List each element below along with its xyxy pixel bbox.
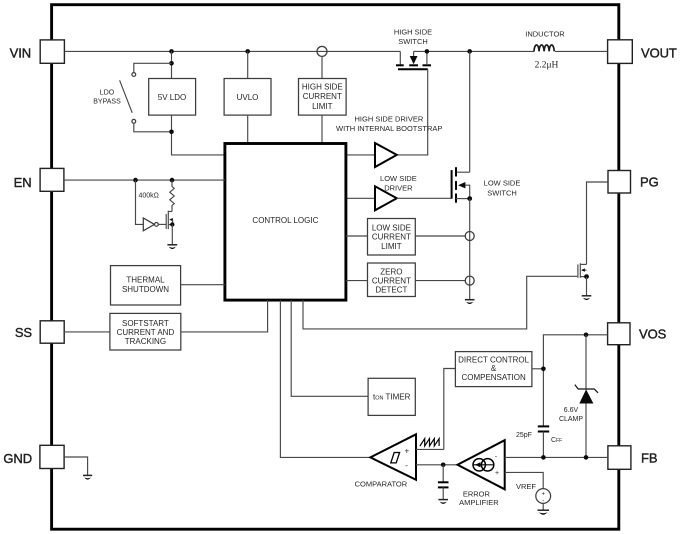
- wire tON timer riser: [291, 300, 368, 396]
- node VIN sense circle: [317, 46, 327, 78]
- svg-text:VOUT: VOUT: [641, 45, 677, 60]
- wire PG gate net: [303, 276, 577, 329]
- svg-text:CURRENT: CURRENT: [372, 276, 411, 285]
- svg-text:CONTROL LOGIC: CONTROL LOGIC: [252, 216, 318, 225]
- ramp symbol: [420, 439, 439, 446]
- capacitor Cff 25pF: [516, 426, 562, 457]
- svg-text:LOW SIDE: LOW SIDE: [380, 174, 417, 183]
- node VIN-LDO junction: [169, 49, 174, 78]
- transistor low side switch: [452, 167, 521, 203]
- block SOFTSTART: [110, 313, 181, 350]
- svg-text:6.6V: 6.6V: [564, 407, 579, 414]
- svg-text:FB: FB: [641, 451, 657, 466]
- svg-text:SWITCH: SWITCH: [398, 37, 428, 46]
- pin FB: [608, 446, 658, 470]
- block 5V LDO: [149, 79, 196, 116]
- inductor L1: [525, 29, 607, 70]
- svg-text:BYPASS: BYPASS: [93, 98, 121, 105]
- wire UVLO to control logic: [247, 115, 249, 143]
- transistor high side switch: [394, 27, 432, 69]
- wire HSCL to control logic: [321, 115, 323, 143]
- svg-text:PG: PG: [640, 175, 659, 190]
- wire EN rail: [64, 178, 225, 183]
- pin VIN: [10, 40, 65, 63]
- pin EN: [14, 168, 64, 191]
- pin GND: [3, 445, 64, 468]
- transistor EN pulldown Q1: [166, 211, 174, 245]
- svg-text:SHUTDOWN: SHUTDOWN: [122, 285, 169, 294]
- inverter U2: [143, 218, 166, 231]
- pin PG: [608, 171, 659, 194]
- wire comparator plus input: [416, 448, 444, 450]
- wire LSCL sense: [415, 232, 474, 241]
- source VREF: [516, 482, 551, 510]
- ground low side source: [465, 300, 475, 304]
- svg-text:LDO: LDO: [100, 90, 115, 97]
- svg-text:CLAMP: CLAMP: [559, 416, 583, 423]
- svg-text:VOS: VOS: [639, 327, 667, 342]
- op-amp high side driver: [336, 115, 442, 168]
- wire high side gate: [397, 69, 428, 155]
- wire FB rail: [505, 455, 608, 460]
- svg-text:INDUCTOR: INDUCTOR: [525, 29, 565, 38]
- svg-text:LIMIT: LIMIT: [381, 242, 402, 251]
- pin VOUT: [608, 40, 677, 64]
- resistor 400k: [139, 180, 175, 211]
- svg-text:CFF: CFF: [551, 437, 562, 444]
- svg-text:VIN: VIN: [10, 45, 31, 60]
- node VIN-UVLO junction: [245, 49, 250, 78]
- svg-text:CURRENT AND: CURRENT AND: [117, 328, 175, 337]
- svg-text:CURRENT: CURRENT: [372, 233, 411, 242]
- svg-text:THERMAL: THERMAL: [126, 276, 165, 285]
- capacitor comparator filter: [438, 465, 449, 500]
- wire error amp plus input: [505, 472, 544, 488]
- svg-text:EN: EN: [14, 175, 32, 190]
- svg-text:VREF: VREF: [516, 482, 536, 491]
- wire comparator output riser: [280, 300, 370, 457]
- op-amp error amplifier U3: [458, 440, 505, 507]
- block ZERO CURRENT DETECT: [368, 263, 416, 297]
- wire comparator plus riser to direct control: [444, 369, 456, 450]
- wire low side source: [469, 199, 471, 300]
- svg-text:25pF: 25pF: [516, 432, 532, 439]
- svg-text:-: -: [405, 461, 408, 470]
- wire LDO bypass bottom: [134, 123, 172, 132]
- op-amp comparator: [355, 434, 416, 488]
- ground PG FET: [582, 296, 592, 300]
- svg-text:AMPLIFIER: AMPLIFIER: [459, 498, 499, 507]
- wire VOS rail: [543, 333, 607, 427]
- wire comparator minus input: [416, 463, 458, 468]
- svg-text:COMPENSATION: COMPENSATION: [461, 373, 526, 382]
- op-amp low side driver: [346, 174, 452, 210]
- block HIGH SIDE CURRENT LIMIT: [299, 79, 347, 116]
- svg-text:DIRECT CONTROL: DIRECT CONTROL: [458, 355, 530, 364]
- block tON timer: [368, 378, 415, 415]
- svg-text:SWITCH: SWITCH: [487, 188, 517, 197]
- wire 5V LDO to control logic: [169, 115, 225, 155]
- svg-text:COMPARATOR: COMPARATOR: [355, 479, 408, 488]
- svg-text:LIMIT: LIMIT: [312, 102, 333, 111]
- svg-text:ERROR: ERROR: [463, 489, 491, 498]
- svg-text:CURRENT: CURRENT: [303, 92, 342, 101]
- ground comparator cap: [438, 500, 448, 504]
- svg-text:+: +: [495, 470, 499, 477]
- svg-text:UVLO: UVLO: [237, 93, 259, 102]
- svg-text:HIGH SIDE DRIVER: HIGH SIDE DRIVER: [355, 115, 424, 124]
- switch LDO bypass: [93, 73, 135, 124]
- wire control logic to LSCL: [346, 235, 368, 237]
- svg-text:DRIVER: DRIVER: [384, 184, 413, 193]
- wire control logic to ZCD: [346, 280, 368, 282]
- wire VIN rail: [64, 50, 400, 52]
- block UVLO: [224, 79, 271, 116]
- svg-text:+: +: [541, 491, 545, 497]
- svg-text:LOW SIDE: LOW SIDE: [372, 223, 411, 232]
- svg-text:ZERO: ZERO: [380, 267, 402, 276]
- wire EN to inverter: [136, 180, 144, 224]
- svg-text:+: +: [405, 447, 410, 456]
- ground VREF: [538, 510, 550, 515]
- block LOW SIDE CURRENT LIMIT: [368, 219, 416, 256]
- wire GND pin to ground: [64, 457, 88, 475]
- svg-text:TRACKING: TRACKING: [125, 337, 166, 346]
- wire LDO bypass top: [134, 63, 172, 72]
- wire PG pin to FET: [587, 182, 609, 264]
- pin VOS: [608, 323, 667, 345]
- wire direct control output: [532, 367, 546, 372]
- svg-text:HIGH SIDE: HIGH SIDE: [394, 27, 432, 36]
- svg-text:400kΩ: 400kΩ: [139, 193, 159, 200]
- block DIRECT CONTROL: [455, 352, 532, 387]
- diode 6.6V clamp: [559, 335, 598, 458]
- transistor PG pulldown Q3: [578, 263, 589, 295]
- block CONTROL LOGIC: [225, 144, 346, 301]
- wire softstart to control logic: [181, 300, 268, 332]
- block THERMAL SHUTDOWN: [111, 266, 181, 305]
- wire thermal shutdown to control logic: [181, 284, 225, 286]
- node SW junction: [467, 49, 472, 172]
- wire ZCD sense: [415, 276, 474, 285]
- svg-text:LOW SIDE: LOW SIDE: [484, 179, 521, 188]
- ground GND pin: [83, 475, 92, 479]
- pin SS: [15, 321, 64, 343]
- svg-text:SS: SS: [15, 325, 33, 340]
- svg-text:HIGH SIDE: HIGH SIDE: [302, 83, 343, 92]
- svg-text:5V LDO: 5V LDO: [158, 93, 186, 102]
- wire SW node rail: [414, 49, 535, 54]
- svg-text:WITH INTERNAL BOOTSTRAP: WITH INTERNAL BOOTSTRAP: [336, 124, 442, 133]
- svg-text:GND: GND: [3, 451, 32, 466]
- svg-text:&: &: [491, 364, 497, 373]
- svg-text:2.2μH: 2.2μH: [535, 61, 559, 71]
- ground EN FET: [167, 245, 177, 249]
- svg-text:DETECT: DETECT: [375, 285, 407, 294]
- wire SS pin to softstart: [64, 331, 110, 333]
- svg-text:SOFTSTART: SOFTSTART: [122, 319, 169, 328]
